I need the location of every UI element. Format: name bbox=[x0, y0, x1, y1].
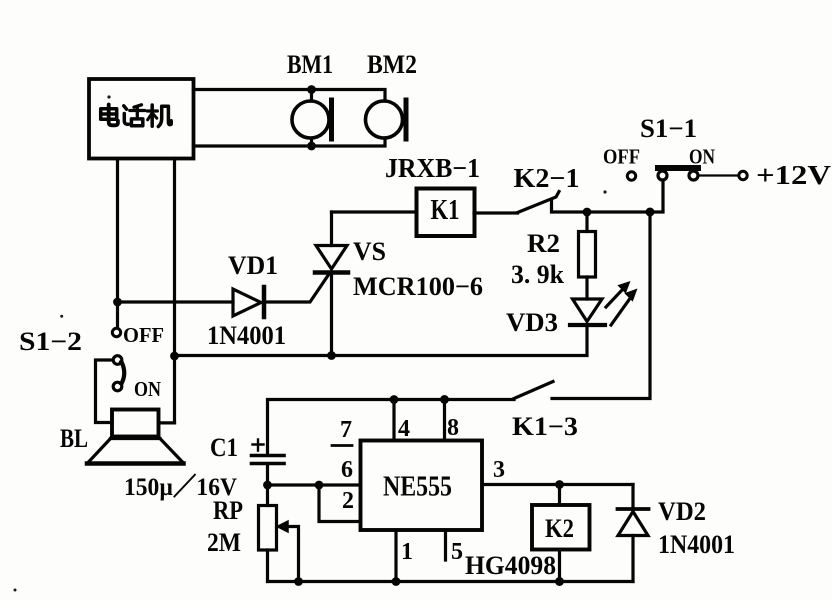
svg-text:MCR100−6: MCR100−6 bbox=[353, 272, 483, 301]
svg-text:VD1: VD1 bbox=[228, 251, 278, 280]
svg-text:ON: ON bbox=[134, 377, 161, 401]
svg-text:ON: ON bbox=[689, 145, 715, 169]
svg-text:S1−2: S1−2 bbox=[19, 327, 82, 356]
svg-text:3. 9k: 3. 9k bbox=[511, 260, 565, 289]
svg-text:RP: RP bbox=[213, 496, 243, 525]
svg-text:OFF: OFF bbox=[123, 323, 164, 347]
svg-text:7: 7 bbox=[340, 417, 352, 443]
svg-text:C1: C1 bbox=[210, 433, 238, 462]
svg-text:+12V: +12V bbox=[756, 160, 832, 190]
svg-text:2: 2 bbox=[342, 488, 354, 514]
svg-text:R2: R2 bbox=[527, 229, 560, 258]
svg-text:OFF: OFF bbox=[603, 145, 640, 169]
svg-text:HG4098: HG4098 bbox=[465, 551, 556, 580]
svg-text:1: 1 bbox=[401, 539, 413, 565]
svg-text:1N4001: 1N4001 bbox=[658, 530, 735, 559]
svg-text:6: 6 bbox=[341, 457, 353, 483]
svg-text:K1: K1 bbox=[431, 195, 460, 226]
svg-text:JRXB−1: JRXB−1 bbox=[385, 153, 480, 183]
svg-text:K2−1: K2−1 bbox=[514, 163, 580, 193]
svg-text:BM1: BM1 bbox=[287, 50, 333, 79]
svg-text:S1−1: S1−1 bbox=[640, 114, 697, 143]
svg-text:BM2: BM2 bbox=[367, 50, 417, 79]
svg-text:NE555: NE555 bbox=[383, 472, 452, 503]
svg-text:VS: VS bbox=[353, 237, 386, 266]
svg-text:4: 4 bbox=[398, 416, 410, 442]
svg-text:K2: K2 bbox=[545, 514, 574, 543]
svg-text:K1−3: K1−3 bbox=[512, 412, 578, 441]
svg-text:VD3: VD3 bbox=[506, 308, 558, 337]
svg-text:1N4001: 1N4001 bbox=[207, 321, 286, 350]
svg-text:3: 3 bbox=[493, 457, 505, 483]
svg-text:8: 8 bbox=[447, 415, 459, 441]
svg-text:2M: 2M bbox=[207, 528, 241, 557]
svg-text:5: 5 bbox=[451, 539, 463, 565]
svg-text:BL: BL bbox=[60, 424, 88, 453]
svg-text:VD2: VD2 bbox=[658, 497, 706, 526]
